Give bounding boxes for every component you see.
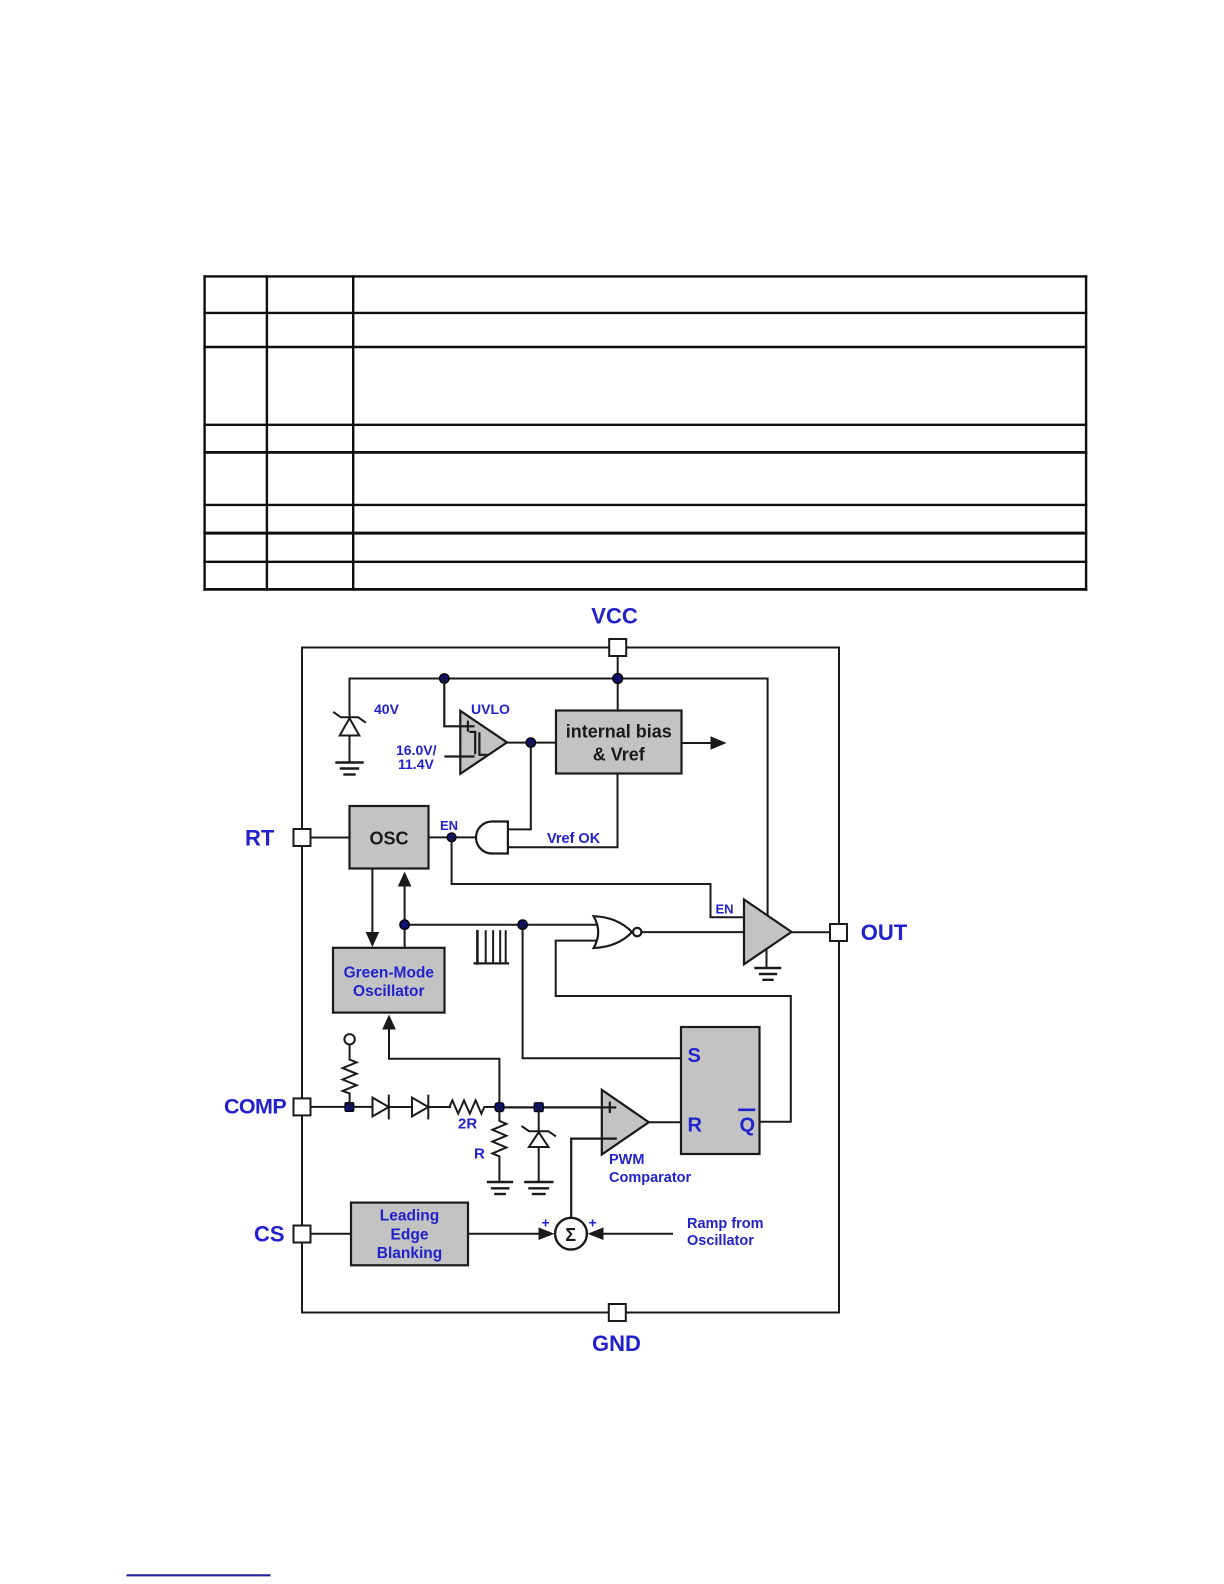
wire RT to OSC (311, 837, 350, 839)
diode D1 (373, 1096, 413, 1119)
node junction on rail above UVLO (440, 674, 449, 683)
wire bias output arrow (682, 742, 713, 744)
svg-text:Green-Mode: Green-Mode (344, 964, 435, 981)
svg-text:PWM: PWM (609, 1152, 644, 1168)
svg-text:2R: 2R (458, 1116, 477, 1133)
internal bias & Vref box U-bias (556, 711, 682, 774)
ground below driver (756, 949, 781, 980)
svg-text:Blanking: Blanking (377, 1245, 442, 1262)
wire CS to LEB (311, 1233, 352, 1235)
OSC box (350, 806, 429, 869)
ground below zener (337, 763, 363, 775)
wire OSC down-arrow to Green-Mode Oscillator (371, 869, 373, 934)
svg-text:+: + (542, 1215, 550, 1231)
svg-text:Leading: Leading (380, 1208, 439, 1225)
IC boundary box (302, 648, 839, 1313)
node EN junction (447, 833, 456, 842)
svg-text:Vref OK: Vref OK (547, 831, 601, 847)
wire S input from rail (523, 925, 681, 1059)
wire UVLO output down to gate top input (508, 743, 531, 830)
pin - of UVLO (446, 755, 474, 757)
svg-text:Σ: Σ (565, 1225, 576, 1245)
wire VCC pin to internal bias (617, 656, 619, 711)
svg-text:GND: GND (592, 1331, 641, 1356)
latch SR box (681, 1027, 760, 1154)
svg-text:Edge: Edge (391, 1226, 429, 1243)
pin + of UVLO (467, 722, 469, 731)
svg-text:OUT: OUT (861, 920, 908, 945)
diode D2 (412, 1096, 450, 1119)
resistor pullup on COMP (343, 1034, 357, 1107)
svg-text:& Vref: & Vref (593, 745, 646, 765)
Green-Mode Oscillator box (333, 948, 445, 1013)
wire NOR output to driver (641, 931, 744, 933)
nor-gate U-nor (594, 916, 632, 948)
ground below R (488, 1182, 512, 1194)
Leading Edge Blanking box (351, 1203, 468, 1266)
ground below zener (525, 1182, 552, 1194)
wire UVLO output (507, 742, 556, 744)
and-gate (mirrored) enable gate (476, 822, 508, 854)
svg-text:EN: EN (716, 902, 734, 917)
node junction zener branch (534, 1103, 543, 1112)
zener diode 40V (334, 713, 365, 762)
pin OUT square (830, 924, 847, 941)
wire NOR lower input feedback from Qbar (556, 941, 791, 1122)
resistor 2R horizontal (450, 1100, 500, 1113)
zener diode on comparator input (522, 1107, 555, 1181)
svg-text:40V: 40V (374, 701, 400, 717)
svg-text:COMP: COMP (224, 1095, 286, 1119)
node junction at pullup (345, 1103, 354, 1112)
svg-text:internal bias: internal bias (566, 722, 672, 742)
svg-text:R: R (688, 1115, 703, 1137)
wire ramp input with arrow into summer (603, 1233, 672, 1235)
node junction on GMO vertical (400, 920, 409, 929)
wire COMP net (311, 1106, 373, 1108)
wire LEB to summer with arrow (468, 1233, 539, 1235)
svg-text:Oscillator: Oscillator (687, 1233, 754, 1249)
wire - input from summer (571, 1139, 616, 1219)
pulse comb symbol (475, 931, 508, 963)
svg-text:+: + (589, 1215, 597, 1231)
pin COMP square (294, 1098, 311, 1115)
svg-text:Ramp from: Ramp from (687, 1216, 764, 1232)
svg-text:S: S (688, 1045, 701, 1067)
wire comparator output to latch R (649, 1121, 681, 1123)
node junction 2R/R (495, 1103, 504, 1112)
pin GND square (609, 1304, 626, 1321)
wire EN run from OSC to driver (452, 837, 744, 917)
pin VCC square (609, 639, 626, 656)
svg-text:RT: RT (245, 825, 275, 850)
op-amp UVLO comparator (460, 711, 507, 774)
svg-text:11.4V: 11.4V (398, 756, 434, 772)
svg-text:Comparator: Comparator (609, 1170, 692, 1186)
pin RT square (294, 829, 311, 846)
svg-text:EN: EN (440, 818, 458, 833)
svg-text:CS: CS (254, 1222, 285, 1247)
svg-text:OSC: OSC (369, 829, 408, 849)
wire OSC to gate with EN node (429, 836, 477, 838)
wire driver to OUT pin (792, 931, 831, 933)
footer rule (127, 1574, 271, 1576)
wire rail to UVLO + input (444, 679, 473, 727)
pin CS square (294, 1226, 311, 1243)
resistor R to ground (492, 1107, 506, 1181)
wire clock rail (405, 924, 599, 926)
wire up-arrow Green-Mode Oscillator to OSC (404, 886, 406, 948)
summer circle (555, 1218, 587, 1250)
pin + of PWM comparator (609, 1103, 611, 1112)
node junction rail to S branch (518, 920, 527, 929)
wire bias bottom to gate lower input (508, 774, 617, 848)
svg-text:UVLO: UVLO (471, 701, 510, 717)
wire VCC rail (350, 679, 768, 915)
TABLE-GRID (203, 275, 1087, 591)
node junction on rail at VCC (613, 674, 623, 684)
svg-text:VCC: VCC (591, 604, 638, 629)
wire 2R junction to comparator + (499, 1106, 615, 1108)
wire up-arrow into GMO bottom from comp divider (389, 1029, 499, 1107)
hysteresis symbol inside UVLO (470, 732, 486, 755)
svg-text:Q: Q (740, 1115, 756, 1137)
svg-text:R: R (474, 1146, 485, 1163)
driver triangle output buffer (744, 900, 792, 965)
node junction UVLO output (526, 738, 535, 747)
op-amp PWM comparator (602, 1090, 649, 1155)
svg-text:Oscillator: Oscillator (353, 983, 425, 1000)
